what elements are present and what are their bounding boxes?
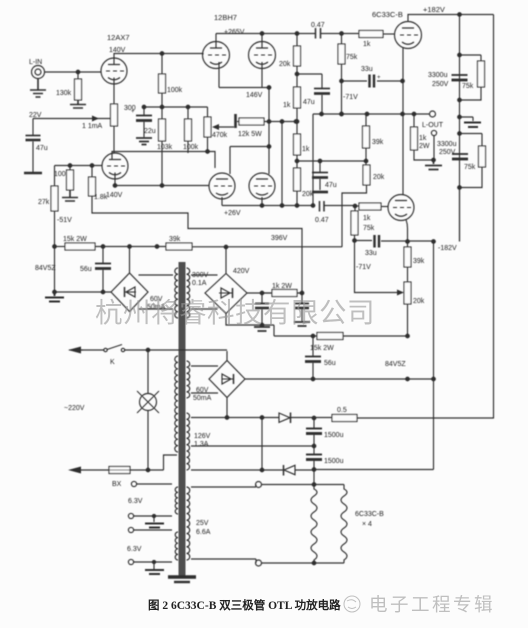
secondary 126V winding (187, 413, 190, 470)
wire V2d grid drop (281, 122, 283, 206)
node grid junction (76, 70, 80, 74)
V1b plate wire to pot bottom (112, 152, 215, 169)
SECTION: mains bottom-left (64, 345, 256, 583)
bridge rectifier B3 60V heater (209, 361, 245, 398)
svg-text:× 4: × 4 (362, 521, 372, 528)
cathode wire 146V (219, 62, 269, 88)
resistor 1k lower (294, 134, 301, 155)
svg-text:+182V: +182V (423, 5, 445, 14)
tube 6C33C-B lower (388, 195, 414, 221)
svg-text:56u: 56u (324, 360, 336, 367)
ground mid supply (458, 115, 462, 119)
svg-text:56u: 56u (80, 266, 92, 273)
6.3V terminal b bottom w ground (128, 559, 133, 564)
SECTION: output tubes right (311, 5, 493, 419)
svg-text:130k: 130k (56, 90, 72, 97)
SECTION: input stage top-left (24, 33, 302, 293)
svg-text:22u: 22u (144, 128, 156, 135)
svg-text:0.5: 0.5 (337, 407, 347, 414)
svg-text:BX: BX (112, 481, 122, 488)
svg-text:12BH7: 12BH7 (214, 13, 237, 22)
svg-text:L-IN: L-IN (29, 59, 42, 66)
svg-text:~220V: ~220V (64, 405, 85, 412)
primary winding 220V (175, 356, 178, 452)
lower tube cathode to -182V (406, 220, 408, 242)
winding bottom wire + diode D2 (191, 469, 283, 471)
core ground (168, 575, 196, 578)
link to lower B rail (273, 325, 275, 336)
bar at 12k5W left (234, 114, 237, 128)
bridge2 winding leads (191, 275, 218, 309)
cathode wire +26V (222, 197, 313, 206)
wiper arrow to 470k (217, 126, 234, 128)
svg-text:20k: 20k (279, 61, 291, 68)
node wire y107 (144, 106, 208, 108)
wiper wire from 75k lower node (355, 241, 401, 293)
tube 6C33C-B upper (395, 22, 422, 49)
svg-text:12k 5W: 12k 5W (238, 131, 262, 138)
svg-text:3300u: 3300u (428, 72, 448, 79)
mains arrow upper (69, 349, 83, 351)
svg-text:杭州将睿科技有限公司: 杭州将睿科技有限公司 (95, 297, 375, 328)
heater element coil 1 (311, 485, 317, 564)
wire V1a cathode chain (113, 78, 115, 105)
svg-text:6C33C-B: 6C33C-B (372, 10, 403, 19)
plate rail +265V (216, 34, 315, 49)
mains arrow lower (68, 467, 81, 474)
wire cathode column down (268, 88, 270, 175)
triode V2d lower 12BH7 (249, 173, 275, 199)
resistor 300 cathode (111, 104, 118, 126)
resistor 130k (77, 72, 79, 79)
watermark logo + text bottom right (344, 596, 360, 612)
wire lower B rail (274, 335, 317, 337)
capacitor 56u lower (312, 336, 314, 356)
wire V1a plate to V2a grid 140V (114, 54, 203, 65)
SECTION: power supply mid (35, 235, 494, 577)
svg-text:1 1mA: 1 1mA (82, 123, 103, 130)
wire cap2 node to -182V (459, 188, 461, 242)
wire to switch (81, 349, 104, 351)
terminal return (431, 130, 436, 135)
svg-text:1500u: 1500u (324, 458, 344, 465)
resistor 1.8k (90, 164, 94, 168)
capacitor 47u lower decouple (319, 161, 321, 172)
svg-text:75k: 75k (462, 83, 474, 90)
svg-text:100: 100 (54, 171, 66, 178)
capacitor 33u bias upper (342, 80, 403, 82)
supply rail caps: 3300u upper (459, 15, 461, 242)
resistor column 20k upper (296, 34, 298, 47)
capacitor 56u upper (102, 247, 104, 264)
connector L-IN (32, 66, 45, 79)
wire L-IN to V1a grid (45, 71, 102, 73)
bridge2 output wire (247, 292, 302, 294)
wire grid feed V2c V2d (230, 147, 269, 175)
resistor 103k divider (161, 107, 163, 119)
output wire L-OUT (313, 113, 430, 115)
V1b cathode to 103k line (114, 173, 116, 186)
svg-text:47u: 47u (325, 182, 337, 189)
svg-text:250V: 250V (439, 149, 456, 156)
switch K (104, 348, 107, 351)
resistor 75k bleeder lower (479, 146, 486, 167)
capacitor 0.47 lower coupling (320, 201, 325, 212)
triode V2b 12BH7 (249, 42, 276, 69)
resistor 15k 2W upper (65, 243, 95, 250)
potentiometer 470k (207, 107, 209, 117)
svg-text:126V: 126V (194, 433, 211, 440)
svg-text:50mA: 50mA (193, 395, 212, 402)
6.3V terminal a bottom w ground (128, 513, 133, 518)
25V 6.6A winding (187, 487, 190, 560)
svg-text:-71V: -71V (343, 94, 358, 101)
svg-text:396V: 396V (271, 235, 288, 242)
svg-text:75k: 75k (464, 164, 476, 171)
svg-text:25V: 25V (196, 520, 209, 527)
wire to bridge1 (55, 291, 112, 293)
lamp (147, 350, 149, 394)
triode V1a 12AX7 (101, 58, 127, 84)
svg-text:84V5Z: 84V5Z (35, 265, 56, 272)
svg-text:-51V: -51V (57, 217, 72, 224)
svg-text:39k: 39k (169, 236, 181, 243)
svg-text:33u: 33u (365, 250, 377, 257)
resistor 1k upper (296, 66, 298, 87)
SECTION: driver tubes (203, 13, 368, 217)
svg-text:1k: 1k (419, 135, 427, 142)
svg-text:图 2 6C33C-B 双三极管 OTL 功放电路: 图 2 6C33C-B 双三极管 OTL 功放电路 (148, 598, 341, 612)
svg-text:6.6A: 6.6A (196, 529, 211, 536)
ground under 130k (70, 100, 86, 108)
svg-text:-71V: -71V (356, 264, 371, 271)
SECTION: heater load bottom-right (256, 482, 385, 567)
heater terminal top (256, 482, 262, 488)
right edge rail (493, 15, 495, 419)
svg-text:12AX7: 12AX7 (107, 33, 130, 42)
svg-text:1.3A: 1.3A (194, 441, 209, 448)
V1b grid wire (55, 165, 103, 167)
svg-text:1k: 1k (283, 102, 291, 109)
svg-text:20k: 20k (413, 298, 425, 305)
svg-text:1k: 1k (363, 215, 371, 222)
svg-text:0.1A: 0.1A (192, 280, 207, 287)
heater element coil 2 (341, 485, 347, 564)
svg-text:0.47: 0.47 (315, 217, 329, 224)
svg-text:27k: 27k (38, 199, 50, 206)
plate to +182V rail (408, 15, 494, 22)
bridge1 winding leads (139, 275, 174, 309)
capacitor 1500u b (306, 454, 322, 456)
wire y161 node (297, 160, 366, 162)
secondary 60V winding (187, 361, 190, 398)
resistor 75k grid leak (341, 34, 343, 45)
wire switch to transformer (125, 349, 228, 351)
ground at output return (425, 160, 442, 170)
svg-text:140V: 140V (106, 192, 123, 199)
svg-text:1k 2W: 1k 2W (272, 283, 292, 290)
svg-text:6.3V: 6.3V (127, 546, 142, 553)
6.3V terminal a top (131, 481, 136, 486)
capacitor 100u bridge2 b (301, 293, 303, 303)
wire 22V with current arrow 1.1mA (33, 118, 111, 120)
svg-text:+: + (377, 75, 381, 81)
bridge rectifier B1 60V (111, 273, 148, 312)
capacitor 47u upper decouple (297, 74, 322, 88)
feedback wire from 1.8k (92, 196, 302, 293)
svg-text:420V: 420V (233, 268, 250, 275)
3300u lower (458, 132, 462, 136)
svg-text:6.3V: 6.3V (128, 498, 143, 505)
svg-text:1k: 1k (363, 41, 371, 48)
resistor 75k lower grid leak (354, 206, 356, 211)
svg-text:75k: 75k (363, 225, 375, 232)
svg-text:+: + (131, 109, 135, 115)
capacitor 47u left (32, 119, 34, 136)
fuse BX (109, 467, 130, 474)
grid stopper 1k lower (355, 205, 359, 207)
resistor 39k -182V chain (407, 242, 409, 248)
diode D1 (279, 413, 290, 422)
ground under L-IN (30, 79, 46, 98)
ground cap b (294, 322, 310, 326)
svg-text:1k: 1k (302, 146, 310, 153)
svg-text:K: K (110, 359, 115, 366)
svg-text:39k: 39k (413, 258, 425, 265)
resistor 15k 2W lower (317, 333, 343, 340)
resistor 12k 5W (237, 121, 239, 123)
svg-text:1500u: 1500u (324, 432, 344, 439)
bridge rectifier B2 420V (205, 274, 247, 314)
svg-text:6C33C-B: 6C33C-B (355, 511, 384, 518)
svg-text:39k: 39k (372, 139, 384, 146)
svg-text:470k: 470k (212, 132, 228, 139)
resistor 27k left rail (54, 166, 56, 187)
svg-text:103k: 103k (157, 144, 173, 151)
capacitor 22u (142, 105, 146, 109)
connector L-OUT (430, 111, 436, 117)
svg-text:250V: 250V (432, 81, 449, 88)
svg-text:47u: 47u (303, 99, 315, 106)
resistor 100k plate (161, 54, 163, 75)
ground left rail (53, 290, 57, 294)
bridge2 bottom lead + ground bus (226, 314, 274, 326)
cathode line to output (402, 47, 404, 195)
capacitor 33u bias lower (355, 240, 434, 243)
grid stopper 1k (340, 32, 344, 36)
svg-text:15k 2W: 15k 2W (310, 345, 334, 352)
resistor 0.5 (332, 415, 357, 422)
resistor 39k upper (166, 243, 192, 250)
svg-text:1.8k: 1.8k (94, 194, 108, 201)
capacitor 1500u a (313, 418, 315, 428)
potentiometer 20k bias (404, 282, 411, 304)
coupling drop wire (312, 114, 314, 206)
bridge3 output wire (245, 378, 434, 380)
winding centre tap wire (191, 445, 314, 447)
svg-text:146V: 146V (246, 92, 263, 99)
resistor 100 grid (68, 164, 72, 168)
resistor 1k 2W dropper (262, 292, 272, 294)
bridge3 top to mains wire (226, 351, 228, 361)
triode V1b (102, 153, 128, 179)
resistor 20k divider (365, 161, 367, 165)
bridge3 bottom lead (226, 398, 228, 418)
svg-text:+26V: +26V (224, 210, 241, 217)
svg-text:15k 2W: 15k 2W (63, 236, 87, 243)
svg-text:75k: 75k (346, 54, 358, 61)
resistor 75k bleeder upper (478, 61, 485, 87)
svg-text:33u: 33u (361, 66, 373, 73)
6.3V winding b (175, 532, 178, 560)
capacitor 100u bridge2 a (261, 293, 263, 303)
capacitor 0.47 top (316, 28, 321, 39)
svg-text:-182V: -182V (438, 245, 457, 252)
resistor 1k 2W output (413, 114, 415, 127)
bridge3 winding leads (191, 366, 218, 393)
secondary 300V winding (187, 268, 190, 318)
primary-left winding 60V (175, 268, 178, 318)
wire 396V B+ rail (55, 246, 66, 248)
svg-text:3300u: 3300u (437, 141, 457, 148)
heater terminal bottom (256, 560, 262, 566)
svg-text:L-OUT: L-OUT (422, 122, 444, 129)
heater DC wire top (191, 417, 279, 419)
svg-text:0.47: 0.47 (311, 22, 325, 29)
resistor 20k lower (296, 155, 298, 168)
resistor 100k divider (187, 107, 189, 119)
svg-text:2W: 2W (419, 143, 430, 150)
negative return wire (314, 469, 434, 471)
resistor 39k divider (365, 114, 367, 126)
triode V2c lower 12BH7 (209, 173, 235, 199)
transformer core (179, 262, 186, 577)
svg-text:47u: 47u (36, 145, 48, 152)
svg-text:+265V: +265V (224, 29, 245, 36)
svg-text:电子工程专辑: 电子工程专辑 (369, 594, 495, 615)
6.3V winding a (175, 487, 178, 514)
wire 103k bottom to V2c grid (115, 141, 209, 186)
svg-text:100k: 100k (183, 144, 199, 151)
-182V rail drop (433, 242, 435, 470)
svg-text:84V5Z: 84V5Z (385, 361, 406, 368)
svg-text:20k: 20k (373, 174, 385, 181)
svg-text:60V: 60V (196, 387, 209, 394)
left rail to ground (54, 247, 56, 293)
triode V2a 12BH7 (203, 42, 230, 69)
6.3V terminal b top (128, 527, 133, 532)
svg-text:100k: 100k (167, 87, 183, 94)
